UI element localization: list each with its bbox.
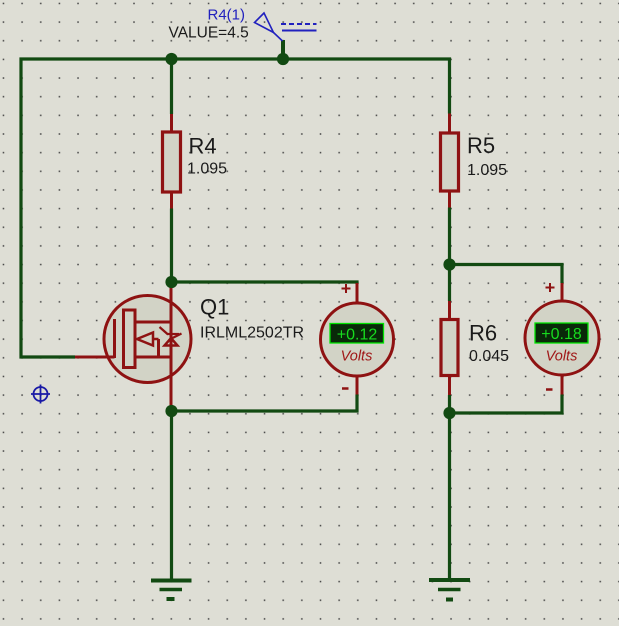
wire R6 bottom to node	[448, 395, 451, 413]
wire source node to ground	[170, 411, 173, 581]
svg-text:Q1: Q1	[200, 295, 229, 320]
resistor R4	[163, 114, 228, 209]
svg-text:R6: R6	[469, 321, 497, 346]
wire voltmeter minus to source node	[172, 395, 358, 412]
wire voltmeter2 minus to node	[450, 395, 563, 414]
resistor R5	[441, 114, 508, 208]
wire R5 bottom to node	[448, 208, 451, 265]
junction node R6 top	[443, 258, 455, 270]
svg-text:+0.18: +0.18	[541, 326, 582, 343]
wire R4 top	[170, 59, 173, 114]
ground 1	[151, 581, 192, 600]
wire node to voltmeter2 plus	[450, 265, 563, 284]
wire left rail and top rail	[21, 59, 450, 357]
svg-text:R4(1): R4(1)	[208, 7, 246, 24]
wire R4 bottom to drain node	[170, 209, 173, 283]
voltmeter U2	[525, 283, 599, 395]
wire node to ground 2	[448, 413, 451, 581]
svg-text:IRLML2502TR: IRLML2502TR	[200, 325, 304, 342]
junction node R6 bottom	[443, 407, 455, 419]
junction node Q1 drain	[165, 276, 177, 288]
ground 2	[429, 580, 470, 600]
junction node Q1 source	[165, 405, 177, 417]
resistor R6	[441, 301, 509, 395]
wire drain node to voltmeter plus	[172, 282, 358, 284]
junction node at probe	[277, 53, 289, 65]
svg-text:Volts: Volts	[341, 349, 373, 365]
svg-text:1.095: 1.095	[467, 162, 507, 179]
origin marker	[31, 385, 50, 404]
transistor Q1	[75, 282, 304, 411]
svg-text:R4: R4	[189, 134, 217, 159]
svg-text:+0.12: +0.12	[337, 327, 378, 344]
svg-text:VALUE=4.5: VALUE=4.5	[169, 25, 249, 42]
wire probe stub	[281, 40, 285, 59]
wire node to R6 top	[448, 265, 451, 302]
junction node R4 top	[165, 53, 177, 65]
svg-text:0.045: 0.045	[469, 348, 509, 365]
svg-text:Volts: Volts	[546, 349, 578, 365]
svg-text:1.095: 1.095	[187, 161, 227, 178]
svg-text:R5: R5	[467, 133, 495, 158]
voltmeter U1	[321, 283, 394, 395]
voltage probe R4(1)	[255, 13, 317, 41]
